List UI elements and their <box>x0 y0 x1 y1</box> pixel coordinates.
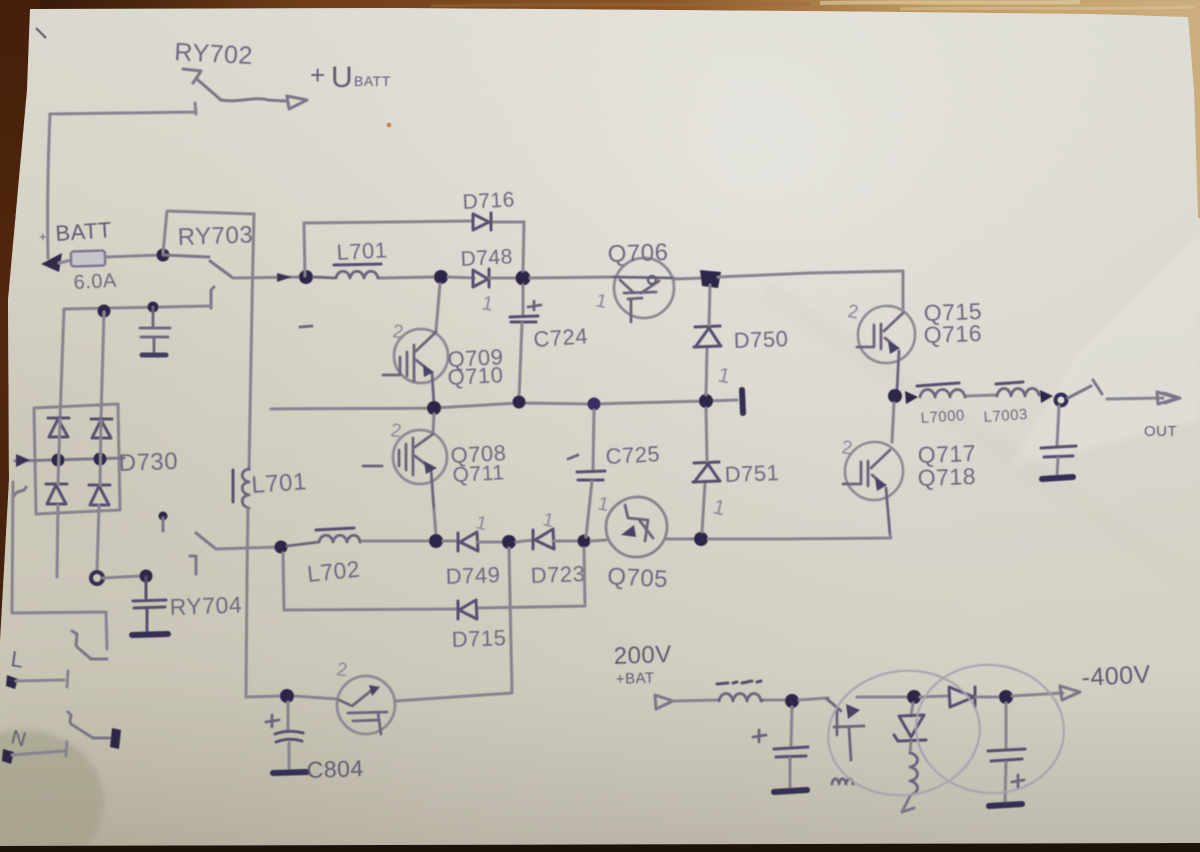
wire bridge right column through <box>97 420 101 571</box>
svg-text:L701: L701 <box>336 237 388 265</box>
output capacitor <box>1057 406 1059 446</box>
wire D751 to node H <box>706 408 707 461</box>
svg-text:D716: D716 <box>462 188 515 214</box>
node bridge mid left <box>52 454 65 467</box>
corner dogear mark <box>36 28 46 38</box>
transistor Q715/Q716 circle <box>858 306 915 363</box>
node N9 at C804 <box>280 689 294 703</box>
svg-text:D750: D750 <box>733 326 788 353</box>
AC tilde mark <box>14 487 26 496</box>
node D top rail <box>700 270 721 288</box>
transistor Q715 internals MOSFET <box>857 313 903 390</box>
transistor Q717 internals MOSFET <box>843 450 890 535</box>
transformer L701 primary coil <box>242 469 249 508</box>
open node at output <box>1056 395 1067 406</box>
svg-text:Q710: Q710 <box>447 362 504 390</box>
transistor Q706 internals <box>614 277 674 322</box>
wire RY702 common with contact tick <box>50 103 196 114</box>
snubber coil below zener <box>910 742 911 753</box>
output switch blade <box>1068 380 1102 398</box>
svg-text:Q718: Q718 <box>917 463 976 491</box>
wire D749 to node K <box>478 541 503 544</box>
transistor Q717/Q718 circle <box>845 442 903 500</box>
capacitor C724 plus mark <box>528 301 541 310</box>
bridge rectifier D730 box <box>34 404 120 514</box>
svg-text:C804: C804 <box>306 755 364 783</box>
fuse 6.0A body <box>59 260 72 263</box>
diode D748 <box>473 269 489 287</box>
diode D730 top-left <box>48 418 69 437</box>
sketch ellipse around output stage <box>910 658 1071 801</box>
node G mid bus under C725 <box>588 398 601 411</box>
capacitor C804 plus <box>266 715 279 727</box>
wire open node to RY704 node <box>103 576 140 578</box>
wire RY704 blade to node B <box>216 547 278 549</box>
node F mid bus under C724 <box>513 396 526 409</box>
middle bus end bar <box>742 390 743 413</box>
boost inductor overline dashes <box>717 681 761 684</box>
wire between coils <box>967 395 997 396</box>
wire L701 secondary down to C804 rail <box>246 508 283 697</box>
wire D716 loop <box>304 221 524 276</box>
inductor L702 core bar <box>316 528 354 530</box>
wire RY703 long vertical to L701 primary <box>249 214 254 469</box>
wire D748 to node C <box>490 277 516 280</box>
diode D723 <box>516 540 534 542</box>
wire D750 to node D <box>709 285 710 325</box>
N switch terminal blob <box>110 728 121 749</box>
switch between L and N <box>68 712 112 738</box>
AC input arrow left <box>16 454 30 467</box>
capacitor C724 <box>522 285 525 315</box>
node J bottom bus <box>429 534 443 548</box>
transistor Q708 internals MOSFET <box>363 434 434 510</box>
boost inductor coil <box>719 694 764 702</box>
arrow at snubber bottom <box>902 796 914 812</box>
inductor L7000 coil <box>920 390 967 398</box>
zener diode below node Q <box>911 703 913 716</box>
sketch ellipse around boost stage <box>820 661 988 805</box>
diode D730 bottom-right <box>89 485 110 505</box>
transistor Q709 vertical from node B <box>436 284 440 330</box>
svg-text:6.0A: 6.0A <box>73 270 117 294</box>
wire mains L-branch lower left <box>12 482 107 649</box>
node RY704 coil top <box>140 570 153 583</box>
node N out mid right <box>888 389 902 403</box>
bottom-left stain <box>0 730 104 852</box>
diode D716 <box>473 213 491 230</box>
capacitor C804 <box>287 702 290 729</box>
diode D715 bypass wire <box>283 548 585 610</box>
svg-text:L701: L701 <box>251 468 308 499</box>
wire node L to Q705 <box>591 540 606 541</box>
wire Q706 through top rail to node D <box>674 278 704 279</box>
plus mark 400V cap <box>1012 775 1024 787</box>
node A top rail left <box>299 270 313 284</box>
transistor Q709 internals MOSFET <box>383 332 436 405</box>
svg-text:RY703: RY703 <box>177 221 253 251</box>
svg-text:RY704: RY704 <box>169 591 242 620</box>
wire L701 to node B <box>381 277 434 278</box>
svg-text:Q711: Q711 <box>452 461 505 487</box>
N terminal blob and wire <box>2 749 14 764</box>
open node below bridge <box>91 572 103 584</box>
svg-text:L7003: L7003 <box>983 406 1028 426</box>
input capacitor <box>791 707 792 746</box>
wire coil to node P <box>765 699 786 702</box>
transistor Q708 vertical from node E <box>433 414 434 432</box>
svg-text:BATT: BATT <box>55 217 113 246</box>
transistor Q708/Q711 circle <box>393 430 447 484</box>
node junction at RY703 input <box>157 249 170 262</box>
input arrow 200V rail <box>655 695 673 709</box>
relay RY704 contact with blob <box>159 512 168 521</box>
diode D730 bottom-left <box>46 484 67 504</box>
svg-text:L702: L702 <box>306 556 362 587</box>
node Q <box>907 690 921 704</box>
svg-text:C725: C725 <box>605 441 661 469</box>
wire L702 to node J <box>362 540 429 543</box>
bottom dark table edge <box>0 843 1200 852</box>
diode to -400V <box>920 696 948 697</box>
input capacitor plus <box>753 730 766 742</box>
arrow blob before out node <box>1040 390 1053 403</box>
wire left vertical from RY702 down to BATT <box>48 114 50 258</box>
relay RY703 second contact tick <box>211 287 214 308</box>
svg-text:-400V: -400V <box>1081 660 1152 692</box>
wire to boost inductor <box>673 700 719 701</box>
relay RY702 switch blade <box>198 80 221 100</box>
inductor L7003 coil <box>997 388 1039 396</box>
wire from pole node down to bridge right column <box>101 312 104 418</box>
paper crease highlight right <box>1010 230 1200 468</box>
svg-text:Q716: Q716 <box>923 320 982 348</box>
wire and arrow -400V <box>1012 693 1063 696</box>
output capacitor 400V <box>1005 703 1008 748</box>
wire RY703 to node A with arrow <box>233 277 300 278</box>
wire IGBT to node Q <box>857 696 908 699</box>
inductor L7003 overline <box>996 382 1023 384</box>
wire RY702 to +UBATT arrow <box>221 99 285 101</box>
arrow blob right of node N <box>905 391 918 404</box>
wire second pole at y306 <box>65 306 211 309</box>
wire bridge left column through <box>57 419 60 577</box>
node C top rail <box>516 271 531 286</box>
node E mid bus <box>427 401 441 415</box>
diode D750 <box>694 326 721 347</box>
svg-text:+: + <box>39 229 47 244</box>
wire from pole wire down to bridge left column <box>60 309 64 418</box>
capacitor at RY703 (unlabeled) <box>140 307 170 355</box>
capacitor C725 <box>593 410 594 470</box>
bottom IGBT internals <box>339 690 387 734</box>
wire fuse to RY703 node <box>105 255 163 257</box>
relay RY704 pivot hook <box>190 556 196 574</box>
transistor Q706 circle <box>614 258 674 318</box>
transistor Q709/Q710 circle <box>394 329 448 383</box>
node I bottom bus left (L702 tap) <box>275 541 288 554</box>
node B top rail <box>434 270 448 284</box>
BATT arrow terminal <box>41 253 62 272</box>
boost IGBT symbol <box>827 699 864 760</box>
svg-text:L7000: L7000 <box>920 407 965 427</box>
paper speck <box>387 123 392 128</box>
inductor L701 top coil <box>313 271 380 278</box>
wire node P to boost IGBT <box>799 698 828 700</box>
svg-text:D749: D749 <box>445 562 500 589</box>
svg-text:RY702: RY702 <box>174 38 254 70</box>
svg-text:C724: C724 <box>533 323 589 352</box>
node R <box>999 690 1013 704</box>
wire Q705 to node M <box>665 538 695 541</box>
bottom IGBT (C804 chopper) circle <box>337 676 395 734</box>
relay RY704 switch blade <box>196 533 216 549</box>
diode D751 <box>693 462 720 482</box>
relay RY702 contact hook <box>183 69 201 83</box>
wire node N9 to IGBT and right vertical <box>294 548 512 701</box>
node bridge mid right <box>94 453 107 466</box>
boost IGBT coil squiggle label <box>832 779 853 784</box>
wire Q708 to bottom bus node I <box>434 510 436 535</box>
wire node D to Q715 corner <box>718 271 903 309</box>
svg-text:+: + <box>310 60 326 90</box>
wire D723 to node L <box>554 540 578 543</box>
stray dash mark <box>300 326 312 327</box>
svg-text:U: U <box>331 61 353 94</box>
svg-text:D748: D748 <box>460 245 513 271</box>
L terminal blob and wire <box>6 675 18 689</box>
diode D750 wire from node H <box>706 348 707 395</box>
svg-text:OUT: OUT <box>1144 423 1177 440</box>
node P <box>785 694 799 708</box>
diode D749 <box>443 540 459 543</box>
svg-text:200V: 200V <box>613 641 672 670</box>
relay RY703 coil box outline <box>163 211 254 253</box>
node L bottom bus <box>578 535 591 548</box>
switch in L-branch <box>72 631 107 659</box>
wire node C to Q706 <box>530 277 614 278</box>
node capacitor tap <box>148 302 159 313</box>
inductor L7000 overline <box>917 383 959 386</box>
transformer L701 core bar <box>232 470 235 502</box>
diode D751 wire from node M <box>702 483 705 532</box>
svg-text:D730: D730 <box>118 448 178 477</box>
diode D730 top-right <box>91 419 112 438</box>
svg-text:BATT: BATT <box>354 73 391 89</box>
plus mark C725 <box>568 455 578 459</box>
wire and OUT arrow <box>1107 398 1163 399</box>
svg-text:Q705: Q705 <box>607 563 669 593</box>
wire node B to D748 <box>448 277 474 278</box>
wire node N down to Q717 <box>892 403 894 442</box>
node on second pole wire left <box>98 305 111 318</box>
relay RY703 switch blade <box>163 255 233 278</box>
wire diode to node R <box>976 696 1000 699</box>
svg-text:+BAT: +BAT <box>616 670 655 688</box>
transistor Q705 circle <box>606 497 667 557</box>
svg-text:D715: D715 <box>451 625 506 652</box>
inductor L701 top core bar <box>334 264 381 265</box>
svg-text:D723: D723 <box>530 561 585 588</box>
node K bottom bus <box>502 535 516 549</box>
inductor L702 coil <box>287 535 362 546</box>
diode D715 <box>458 600 477 619</box>
transistor Q705 internals <box>625 505 653 541</box>
middle bus wire <box>271 400 737 409</box>
node M bottom bus right <box>694 532 708 546</box>
node H mid bus at D750 <box>699 394 713 408</box>
relay RY704 coil symbol <box>133 577 166 631</box>
bridge middle wire <box>15 458 124 461</box>
svg-text:Q706: Q706 <box>607 239 669 268</box>
arrow head +UBATT <box>287 96 307 109</box>
wire Q717 to bottom bus back to node M <box>708 535 891 539</box>
svg-text:D751: D751 <box>724 460 779 487</box>
